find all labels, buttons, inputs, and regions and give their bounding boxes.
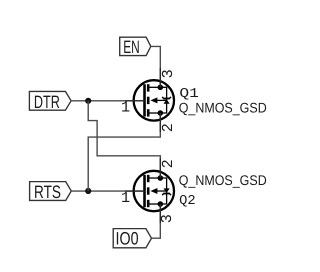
Q1 drain stub xyxy=(148,86,160,88)
Q2 channel segment middle xyxy=(147,187,150,194)
Q1 bulk arrow xyxy=(150,97,157,103)
Q2 body diode link xyxy=(160,178,166,204)
svg-text:Q_NMOS_GSD: Q_NMOS_GSD xyxy=(179,99,267,115)
Q1 channel segment middle xyxy=(147,97,150,104)
Q1 bulk stub xyxy=(157,99,167,101)
Q2 pin 3 (D) xyxy=(159,204,161,223)
Q1 source junction dot xyxy=(158,110,164,116)
svg-text:DTR: DTR xyxy=(34,92,60,112)
global label IO0 xyxy=(113,228,151,248)
svg-text:EN: EN xyxy=(123,37,140,57)
Q2 pin 1 (G) xyxy=(125,190,145,192)
Q1 pin 2 (S) xyxy=(159,113,161,132)
svg-text:IO0: IO0 xyxy=(116,228,139,248)
global label RTS xyxy=(30,182,72,202)
Q2 pin 2 (S) xyxy=(159,158,161,178)
svg-text:Q_NMOS_GSD: Q_NMOS_GSD xyxy=(179,172,267,188)
transistor Q1 xyxy=(125,68,174,132)
Q1 source stub xyxy=(148,112,160,114)
Q2 source junction dot xyxy=(158,175,164,181)
Q1 channel segment top xyxy=(147,84,150,91)
svg-text:Q2: Q2 xyxy=(179,194,196,209)
transistor Q2 xyxy=(125,158,174,223)
Q1 pin 3 (D) xyxy=(159,68,161,87)
svg-text:3: 3 xyxy=(158,214,176,223)
wire RTS to Q2 gate xyxy=(71,190,144,192)
Q2 source stub xyxy=(148,177,160,179)
Q2 bulk stub xyxy=(157,190,167,192)
svg-text:2: 2 xyxy=(159,123,177,132)
wire EN to Q1 drain xyxy=(151,46,161,87)
svg-text:3: 3 xyxy=(159,69,177,78)
Q1 channel segment bottom xyxy=(147,109,150,116)
Q1 pin 1 (G) xyxy=(125,100,145,102)
Q2 gate bar xyxy=(143,175,146,207)
wire Q2 drain to IO0 xyxy=(152,204,161,238)
svg-text:RTS: RTS xyxy=(34,182,61,202)
wire DTR to Q1 gate xyxy=(71,100,145,102)
Q2 drain stub xyxy=(148,203,160,205)
junction DTR node xyxy=(85,98,91,104)
junction RTS node xyxy=(85,188,91,194)
Q1 body circle xyxy=(134,80,174,120)
global label DTR xyxy=(29,91,71,112)
Q2 body circle xyxy=(134,171,174,211)
Q1 gate bar xyxy=(143,84,146,116)
svg-text:2: 2 xyxy=(159,159,177,168)
Q2 channel segment top xyxy=(147,175,150,182)
svg-text:1: 1 xyxy=(121,99,130,117)
Q2 body diode xyxy=(162,188,171,195)
Q1 body diode xyxy=(162,97,171,104)
Q2 bulk arrow xyxy=(150,188,157,194)
wire DTR to Q2 source xyxy=(88,101,160,178)
global label EN xyxy=(120,37,151,57)
Q1 body diode link xyxy=(160,87,166,113)
svg-text:1: 1 xyxy=(121,189,130,207)
Q2 drain junction dot xyxy=(158,201,164,207)
wire RTS to Q1 source xyxy=(88,113,160,191)
Q1 drain junction dot xyxy=(158,85,164,91)
Q2 channel segment bottom xyxy=(147,200,150,207)
